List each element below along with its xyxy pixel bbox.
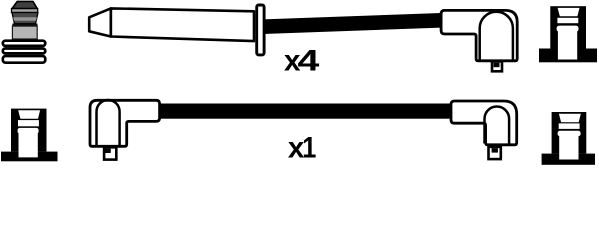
terminal nut icon (bottom left) — [1, 109, 58, 162]
right-angle boot (bottom left): inner dome — [97, 100, 120, 145]
spark plug boot icon: cylinder — [12, 26, 37, 39]
terminal nut icon (bottom right) — [542, 112, 595, 165]
right-angle boot (bottom right): bottom tab — [489, 147, 501, 159]
straight distributor boot body (top cable left end) — [111, 8, 254, 41]
spark plug boot icon: rib 2 — [3, 49, 46, 54]
straight boot nose — [89, 8, 111, 36]
right-angle boot (bottom cable right end): outline — [451, 101, 517, 145]
right-angle boot (bottom cable left end): outline — [90, 100, 160, 146]
spark plug boot icon: rib 1 — [3, 41, 46, 46]
right-angle boot (bottom right): inner dome — [485, 107, 510, 144]
spark plug boot icon: light collar band — [12, 9, 38, 13]
straight boot flange — [257, 5, 264, 55]
right-angle boot (top): inner dome — [480, 12, 513, 60]
ignition wire (bottom cable) — [155, 104, 452, 119]
terminal nut icon (top right) — [539, 6, 597, 62]
right-angle boot (top): bottom tab — [492, 62, 502, 72]
spark plug boot icon: neck — [12, 13, 38, 24]
spark plug boot icon (top left): cap — [12, 1, 37, 8]
spark plug boot icon: rib 3 — [3, 56, 46, 63]
spark plug boot icon: black collar — [12, 24, 37, 27]
ignition wire (top cable) — [263, 13, 441, 34]
right-angle spark plug boot (top cable right end): outline — [441, 10, 517, 60]
svg-text:1: 1 — [302, 131, 316, 164]
svg-text:4: 4 — [298, 44, 321, 77]
right-angle boot (bottom left): bottom tab — [104, 147, 116, 159]
